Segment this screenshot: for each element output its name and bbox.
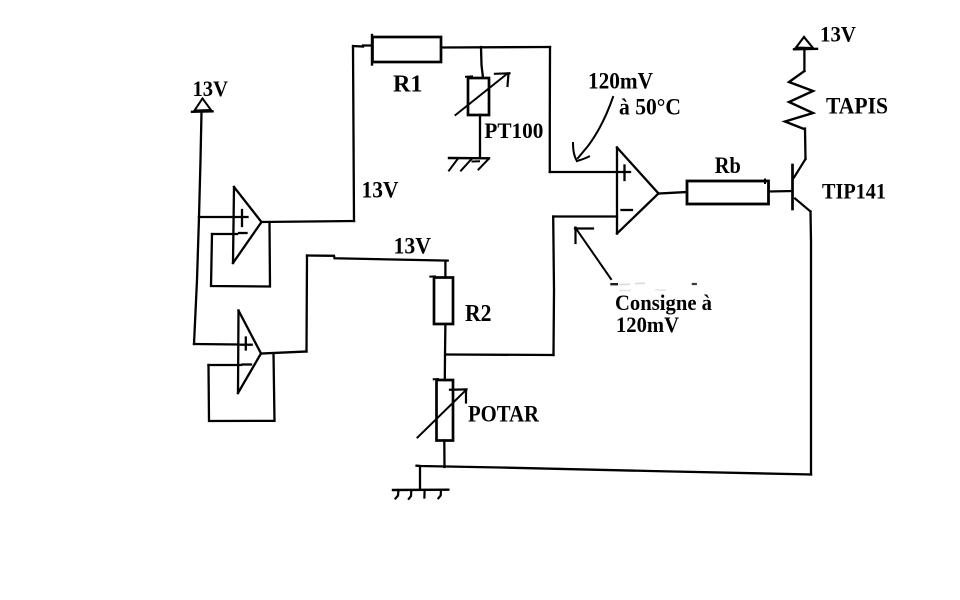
resistor Rb (687, 180, 769, 205)
svg-text:120mV: 120mV (616, 312, 679, 337)
wire U2 - input (209, 364, 242, 366)
supply symbol 13V top-left (192, 99, 213, 112)
resistor PT100 (466, 76, 489, 115)
svg-text:120mV: 120mV (588, 69, 653, 94)
wire collector up to TAPIS (804, 129, 807, 160)
wire emitter down (809, 212, 812, 475)
wire comparator output to Rb (659, 192, 688, 194)
wire stub to R2 top (444, 261, 446, 278)
pin - tick U2 (243, 363, 252, 365)
wire 13V line to R2 (307, 256, 448, 261)
svg-text:PT100: PT100 (484, 118, 543, 143)
transistor Q1 TIP141 (793, 159, 811, 212)
svg-text:13V: 13V (193, 76, 229, 101)
svg-text:Rb: Rb (715, 153, 741, 178)
wire POTAR bottom (443, 441, 446, 468)
arrow annotation to - input (575, 228, 611, 280)
svg-text:POTAR: POTAR (468, 402, 539, 427)
wire comparator - input (553, 215, 617, 217)
ground bottom (393, 490, 448, 499)
svg-text:13V: 13V (820, 22, 856, 47)
wire U1 feedback loop (211, 223, 270, 287)
ground under PT100 (449, 158, 489, 171)
wire U1 + input (199, 216, 248, 218)
svg-text:13V: 13V (394, 234, 432, 259)
pin - tick U1 (239, 232, 247, 234)
wire U2 output (261, 352, 307, 354)
wire node down to PT100 (481, 47, 483, 78)
wire comparator + input (550, 171, 630, 173)
wire PT100 to ground (479, 115, 481, 157)
svg-text:TAPIS: TAPIS (826, 94, 888, 119)
pin + tick U3 (623, 166, 625, 181)
wire rail to R2/POTAR node (447, 353, 554, 356)
wire Rb to base (769, 190, 793, 193)
wire into R1 left (353, 46, 372, 47)
pin - tick U3 (622, 209, 633, 211)
wire stub to ground (419, 466, 421, 490)
wire R1 right to comparator node (441, 46, 550, 49)
resistor R1 (372, 35, 441, 65)
pin + tick U2 (241, 344, 252, 346)
wire rail between op-amp inputs (194, 217, 199, 344)
svg-text:13V: 13V (362, 178, 399, 203)
resistor TAPIS zigzag (785, 71, 813, 129)
wire - input rail down (552, 217, 555, 356)
wire rail up from U2 output (305, 256, 308, 352)
resistor POTAR (434, 379, 453, 440)
wire U2 feedback loop (209, 354, 275, 422)
op-amp U3 comparator (617, 148, 659, 234)
arrow PT100 variable (456, 73, 510, 115)
supply symbol 13V top-right (794, 37, 817, 49)
svg-text:à 50°C: à 50°C (619, 95, 681, 120)
faint erased marks (612, 283, 696, 290)
svg-text:TIP141: TIP141 (822, 179, 886, 204)
op-amp U2 (238, 311, 261, 394)
wire U2 + input (194, 343, 239, 346)
wire U1 output to rail (262, 221, 355, 222)
wire 13V rail down left side (199, 112, 202, 217)
wire TAPIS to supply arrow (803, 50, 805, 71)
wire node down to comparator + input (549, 47, 552, 172)
pin + tick U1 (241, 210, 243, 226)
svg-text:R2: R2 (465, 301, 492, 327)
wire U1 - input (212, 233, 237, 235)
wire bottom net to emitter (417, 466, 812, 475)
wire rail up to R1 (353, 47, 354, 221)
resistor R2 (430, 276, 453, 324)
svg-text:R1: R1 (393, 72, 423, 98)
op-amp U1 (233, 187, 262, 263)
arrow annotation to + input (573, 97, 613, 161)
wire R2 bottom to POTAR (444, 324, 447, 380)
arrow POTAR wiper (418, 389, 467, 437)
